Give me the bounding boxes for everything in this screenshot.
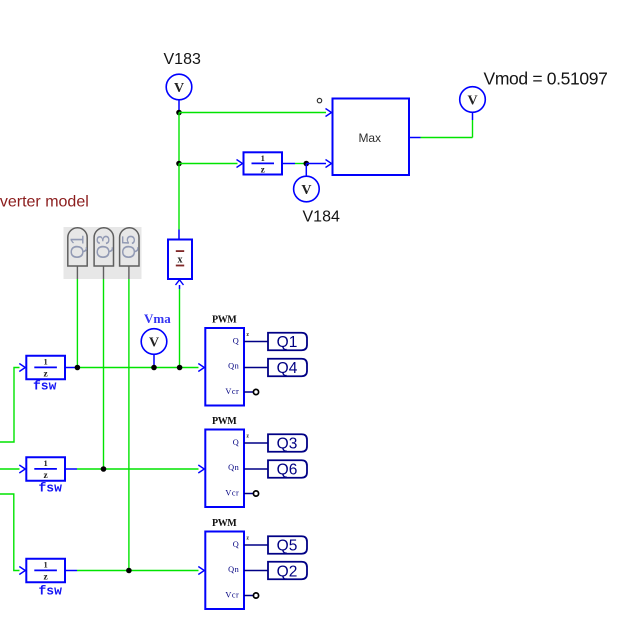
svg-text:Q1: Q1 (277, 334, 298, 351)
svg-text:Q1: Q1 (67, 235, 87, 259)
node A junction (176, 110, 182, 116)
terminal Vcr PWM 2 (244, 491, 259, 496)
svg-text:V: V (301, 183, 311, 198)
tag Q3 (268, 434, 307, 452)
delay block 1/z fsw (row 3) (26, 559, 65, 583)
arrow into Max input 2 (326, 160, 332, 168)
svg-text:PWM: PWM (212, 315, 237, 326)
left input wire 2 (0, 468, 20, 470)
svg-text:x: x (178, 254, 183, 265)
wire tag Q3 to row 2 (103, 279, 105, 469)
wire PWM1 Q to tag Q1 (244, 341, 268, 343)
wire PWM1 Qn to tag Q4 (244, 367, 268, 369)
svg-text:Q5: Q5 (119, 235, 139, 259)
svg-text:z: z (246, 434, 249, 440)
wire PWM2 Q to tag Q3 (244, 442, 268, 444)
svg-text:Q2: Q2 (277, 564, 298, 581)
node B junction (176, 161, 182, 167)
junction row 1 at Q1 line (75, 365, 81, 371)
svg-text:V: V (149, 335, 159, 350)
wire node A to Max input 1 (179, 112, 326, 114)
PWM subcircuit 1 (205, 328, 244, 406)
svg-text:Inverter model: Inverter model (0, 193, 89, 210)
arrow into PWM 2 (198, 465, 204, 473)
tag Q1 (268, 333, 307, 351)
svg-text:Q3: Q3 (277, 436, 298, 453)
svg-text:Q6: Q6 (277, 462, 298, 479)
wire abs block to row 1 (179, 285, 181, 368)
svg-text:PWM: PWM (212, 416, 237, 427)
svg-text:Vcr: Vcr (225, 387, 239, 396)
arrow into delay fsw 2 (19, 465, 25, 473)
svg-text:1: 1 (43, 357, 47, 367)
svg-text:fsw: fsw (39, 584, 63, 599)
svg-text:Vcr: Vcr (225, 591, 239, 600)
arrow into PWM 1 (198, 364, 204, 372)
left input wire 1 (0, 368, 20, 443)
junction row 2 at Q3 line (101, 466, 107, 472)
arrow into abs block bottom (176, 280, 184, 285)
tag Q3 (rotated label) (94, 228, 114, 279)
tag Q5 (rotated label) (119, 228, 139, 279)
left input wire 3 (0, 494, 20, 571)
svg-text:Qn: Qn (228, 362, 239, 371)
svg-text:Qn: Qn (228, 463, 239, 472)
svg-text:Qn: Qn (228, 565, 239, 574)
svg-text:z: z (246, 536, 249, 542)
abs block |x| (168, 240, 192, 280)
tag Q1 (rotated label) (67, 228, 87, 279)
arrow into delay fsw 3 (19, 567, 25, 575)
wire node A down to node B (178, 113, 180, 164)
svg-text:Vmod = 0.51097: Vmod = 0.51097 (484, 68, 608, 88)
dot marker near Max input 1 (317, 98, 321, 102)
wire tag Q1 to row 1 (76, 279, 78, 368)
wire row 3 (65, 570, 199, 572)
svg-text:1: 1 (261, 153, 265, 163)
svg-text:1: 1 (43, 560, 47, 570)
wire PWM2 Qn to tag Q6 (244, 468, 268, 470)
wire PWM3 Q to tag Q5 (244, 544, 268, 546)
svg-text:V184: V184 (303, 209, 340, 226)
svg-text:fsw: fsw (39, 481, 63, 496)
svg-text:Q3: Q3 (94, 235, 114, 259)
svg-text:Q5: Q5 (277, 538, 298, 555)
svg-text:Q: Q (233, 540, 240, 549)
svg-text:fsw: fsw (33, 379, 57, 394)
wire Max output to probe Vmod (409, 112, 473, 137)
wire node B down to abs block (178, 164, 180, 230)
svg-text:Vcr: Vcr (225, 489, 239, 498)
tag Q4 (268, 359, 307, 377)
wire tag Q5 to row 3 (128, 279, 130, 571)
arrow into delay fsw 1 (19, 364, 25, 372)
wire PWM3 Qn to tag Q2 (244, 570, 268, 572)
voltage probe V183 (166, 74, 192, 112)
selection highlight around Q1 Q3 Q5 tags (64, 227, 142, 279)
svg-text:Vma: Vma (144, 311, 171, 326)
svg-text:Q: Q (233, 438, 240, 447)
Max block (333, 99, 410, 176)
tag Q2 (268, 562, 307, 581)
terminal Vcr PWM 1 (244, 389, 259, 394)
junction row 3 at Q5 line (126, 568, 132, 574)
terminal Vcr PWM 3 (244, 593, 259, 598)
PWM subcircuit 3 (205, 532, 244, 610)
wire node B to delay block (179, 163, 238, 165)
wire delay output to node C (282, 163, 295, 165)
wire row 1 (65, 367, 199, 369)
wire node C to Max input 2 (306, 163, 326, 165)
svg-text:V: V (467, 93, 477, 108)
node C junction (304, 161, 310, 167)
tag Q5 (268, 536, 307, 554)
svg-text:1: 1 (43, 458, 47, 468)
voltage probe Vmod (460, 87, 486, 113)
wire row 2 (65, 468, 199, 470)
svg-text:z: z (246, 332, 249, 338)
voltage probe Vma (141, 329, 167, 368)
unit delay block 1/z (top) (244, 152, 283, 175)
svg-text:Max: Max (359, 131, 381, 145)
delay block 1/z fsw (row 2) (26, 457, 65, 481)
delay block 1/z fsw (row 1) (26, 356, 65, 380)
tag Q6 (268, 460, 307, 478)
svg-text:Q: Q (233, 336, 240, 345)
svg-text:V183: V183 (164, 51, 201, 68)
junction row 1 at abs line (177, 365, 183, 371)
arrow into Max input 1 (326, 109, 332, 117)
PWM subcircuit 2 (205, 430, 244, 508)
voltage probe V184 (294, 164, 320, 202)
junction row 1 at Vma (151, 365, 157, 371)
svg-text:V: V (174, 81, 184, 96)
arrow into delay block (237, 160, 243, 168)
svg-text:PWM: PWM (212, 518, 237, 529)
arrow into PWM 3 (198, 567, 204, 575)
svg-text:Q4: Q4 (277, 360, 298, 377)
